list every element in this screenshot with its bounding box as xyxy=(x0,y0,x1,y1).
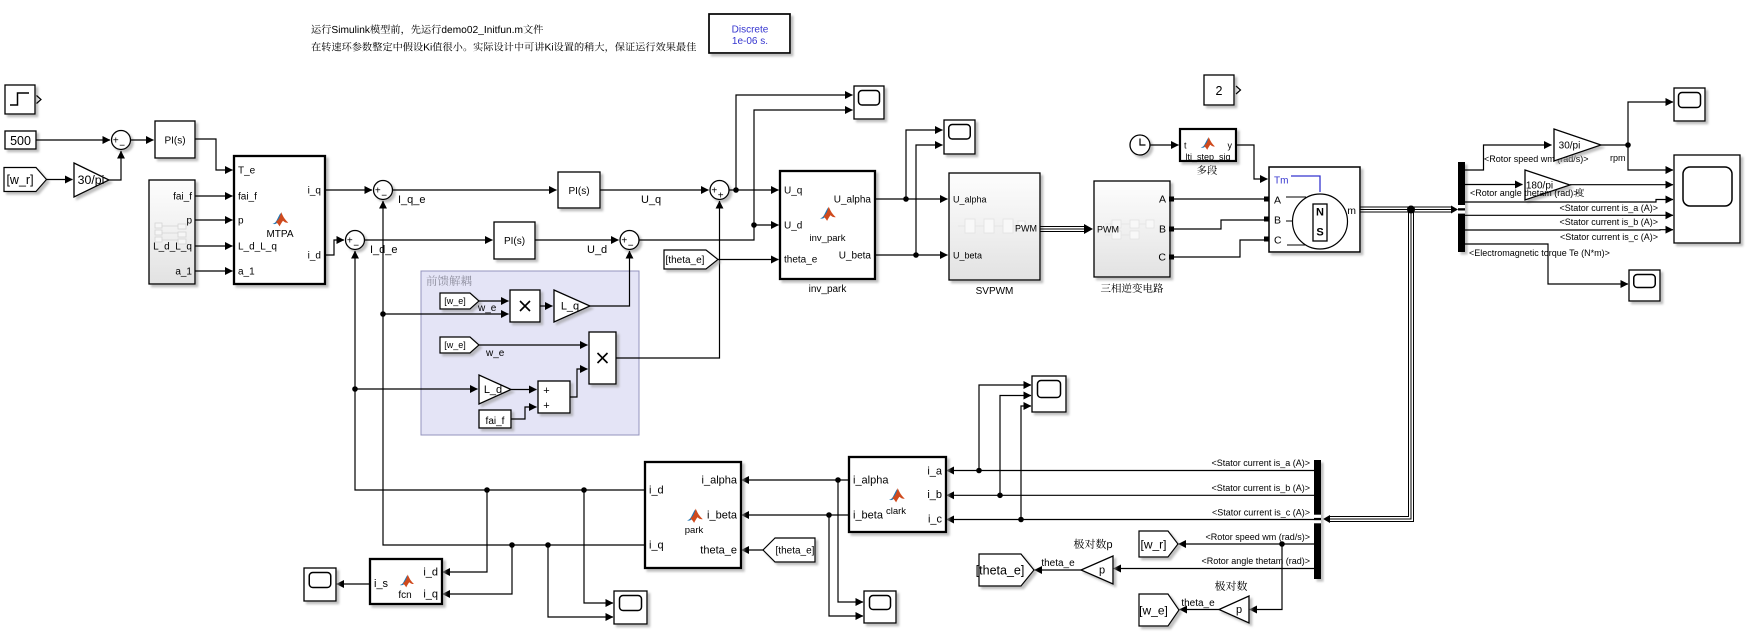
svg-text:inv_park: inv_park xyxy=(809,284,848,295)
wire clark i_alpha to park xyxy=(742,479,850,481)
svg-text:−: − xyxy=(628,241,634,252)
svg-text:1e-06 s.: 1e-06 s. xyxy=(732,36,768,47)
svg-text:T_e: T_e xyxy=(238,166,256,177)
parameter source subsystem xyxy=(149,180,195,284)
PI(s) q-axis controller xyxy=(558,172,600,208)
svg-text:L_d_L_q: L_d_L_q xyxy=(153,242,192,253)
svg-text:rpm: rpm xyxy=(1610,153,1626,163)
wire theta_e to park xyxy=(742,549,764,551)
PI(s) d-axis controller xyxy=(494,222,535,259)
step source block xyxy=(5,85,35,114)
wire is_b up to scope xyxy=(1000,396,1031,496)
measurement bus motor to selector xyxy=(1360,207,1452,212)
svg-text:U_alpha: U_alpha xyxy=(953,195,987,205)
wire i_q tap to product xyxy=(383,313,509,315)
junction dot i_d scope xyxy=(581,487,587,493)
product block upper xyxy=(510,290,540,322)
wire 多段 to motor Tm xyxy=(1236,145,1268,179)
bus junction dot xyxy=(1407,206,1415,214)
svg-text:p: p xyxy=(1099,565,1105,577)
svg-text:lti_step_sig: lti_step_sig xyxy=(1185,152,1230,162)
sum junction i_d error xyxy=(346,231,365,250)
wire torque to scope xyxy=(1465,244,1628,284)
svg-text:<Stator current is_b (A)>: <Stator current is_b (A)> xyxy=(1559,217,1658,227)
wire big product to sum U_q bottom xyxy=(616,201,720,358)
svg-text:+: + xyxy=(375,186,381,197)
wire PId to sum U_d xyxy=(535,239,619,241)
wire stator b to big scope xyxy=(1465,214,1673,216)
svg-text:I_q_e: I_q_e xyxy=(398,194,426,206)
svg-text:N: N xyxy=(1316,207,1324,219)
svg-text:fai_f: fai_f xyxy=(486,416,505,427)
junction dot U_beta xyxy=(913,252,919,258)
wire w_e to big product xyxy=(479,344,588,346)
from tag [w_e] lower xyxy=(440,337,479,353)
label 极对数p xyxy=(1074,539,1112,551)
svg-text:i_q: i_q xyxy=(308,186,321,197)
wire U_d to scope xyxy=(754,110,853,225)
SVPWM subsystem xyxy=(949,173,1040,280)
svg-text:B: B xyxy=(1159,224,1166,236)
svg-text:i_a: i_a xyxy=(927,466,943,478)
svg-text:30/pi: 30/pi xyxy=(78,173,105,187)
pwm bus SVPWM to inverter xyxy=(1040,227,1085,232)
wire park i_d feedback xyxy=(355,251,645,490)
wire PIq to sum U_q xyxy=(600,189,709,191)
wire i_q to scope mid xyxy=(548,545,613,617)
svg-text:a_1: a_1 xyxy=(238,267,255,278)
multi-step MATLAB function block xyxy=(1180,129,1236,161)
svg-text:<Stator current is_c (A)>: <Stator current is_c (A)> xyxy=(1212,508,1310,518)
svg-text:I_d_e: I_d_e xyxy=(370,244,398,256)
from tag [w_e] upper xyxy=(440,293,479,309)
svg-text:i_q: i_q xyxy=(423,589,438,601)
svg-text:theta_e: theta_e xyxy=(700,545,737,557)
from tag [theta_e] park xyxy=(763,538,815,562)
wire i_d to scope mid xyxy=(584,490,613,603)
wire is_a to clark xyxy=(947,470,1315,472)
scope stator currents xyxy=(1032,376,1066,412)
svg-text:Tm: Tm xyxy=(1274,176,1288,187)
junction dot i_q fcn xyxy=(509,542,515,548)
svg-text:SVPWM: SVPWM xyxy=(976,286,1014,297)
junction dot i_d decouple xyxy=(352,386,358,392)
svg-text:i_c: i_c xyxy=(928,514,943,526)
wire is_a up to scope xyxy=(979,385,1031,471)
gain 30/pi rpm xyxy=(1554,129,1601,161)
wire phase A xyxy=(1174,198,1264,200)
svg-text:2: 2 xyxy=(1216,84,1223,98)
svg-text:+: + xyxy=(718,191,724,202)
svg-text:<Electromagnetic torque Te (N*: <Electromagnetic torque Te (N*m)> xyxy=(1469,248,1610,258)
wire sum U_q to inv_park xyxy=(729,189,779,191)
svg-text:p: p xyxy=(1236,604,1242,616)
wire p xyxy=(195,219,233,221)
inv_park MATLAB function block xyxy=(780,171,875,279)
wire U_alpha to SVPWM xyxy=(875,198,948,200)
svg-text:theta_e: theta_e xyxy=(1041,558,1075,569)
wire stator a to big scope xyxy=(1465,200,1673,203)
scope i_d i_q xyxy=(614,591,647,624)
label 多段 xyxy=(1197,165,1217,175)
constant fai_f xyxy=(479,410,511,428)
wire rotor angle to gain xyxy=(1465,184,1523,186)
constant 2 xyxy=(1204,75,1234,105)
wire i_beta to scope xyxy=(829,515,863,616)
wire clock to 多段 xyxy=(1151,144,1179,146)
svg-text:−: − xyxy=(381,191,387,202)
product block lower xyxy=(589,332,616,384)
label 极对数 xyxy=(1215,581,1247,591)
svg-text:+: + xyxy=(113,136,119,147)
wire sum U_d to inv_park xyxy=(639,225,779,240)
svg-text:PI(s): PI(s) xyxy=(164,136,185,147)
wire fcn i_s to scope xyxy=(337,583,371,585)
svg-text:<Stator current is_a (A)>: <Stator current is_a (A)> xyxy=(1559,203,1658,213)
wire gain p to theta_e goto xyxy=(1035,569,1082,571)
junction dot wm xyxy=(1279,541,1285,547)
svg-text:L_d: L_d xyxy=(484,384,502,396)
junction dot i_beta xyxy=(826,512,832,518)
svg-text:PI(s): PI(s) xyxy=(504,236,525,247)
svg-text:i_q: i_q xyxy=(649,540,664,552)
wire rpm to big scope xyxy=(1628,145,1673,170)
svg-text:30/pi: 30/pi xyxy=(1559,140,1581,151)
svg-text:U_alpha: U_alpha xyxy=(834,195,872,206)
svg-text:C: C xyxy=(1158,252,1166,264)
PMSM motor block xyxy=(1269,167,1360,252)
wire gain to junction xyxy=(1601,144,1628,146)
svg-text:U_d: U_d xyxy=(587,244,607,256)
wire i_q to fcn xyxy=(443,545,513,594)
wire gain to sum bottom xyxy=(109,151,121,180)
wire thetam to gain xyxy=(1114,568,1315,570)
svg-text:MTPA: MTPA xyxy=(266,229,293,240)
bus down to bottom selector xyxy=(1330,210,1413,522)
svg-text:clark: clark xyxy=(886,506,906,517)
svg-text:theta_e: theta_e xyxy=(1181,598,1215,609)
svg-text:PWM: PWM xyxy=(1015,224,1037,234)
svg-text:p: p xyxy=(186,216,192,227)
wire stator c to big scope xyxy=(1465,229,1673,231)
svg-text:i_d: i_d xyxy=(423,567,438,579)
svg-text:fcn: fcn xyxy=(398,590,411,601)
svg-text:fai_f: fai_f xyxy=(238,192,257,203)
svg-text:−: − xyxy=(119,141,125,152)
svg-text:B: B xyxy=(1274,215,1281,227)
annotation line 2 xyxy=(311,42,696,53)
wire PI to MTPA T_e xyxy=(195,139,233,170)
svg-text:+: + xyxy=(347,236,353,247)
scope i_s xyxy=(304,568,336,601)
svg-text:<Stator current is_b (A)>: <Stator current is_b (A)> xyxy=(1211,483,1310,493)
gain L_q xyxy=(554,290,590,322)
svg-text:y: y xyxy=(1228,141,1233,151)
constant 500 xyxy=(5,131,36,149)
wire 500 to sum xyxy=(36,139,110,141)
goto tag [w_r] bottom xyxy=(1139,531,1178,557)
area title 前馈解耦 xyxy=(427,275,472,286)
svg-text:<Rotor angle thetam (rad)>: <Rotor angle thetam (rad)> xyxy=(1470,188,1579,198)
scope rpm xyxy=(1674,88,1705,121)
junction dot is_c scope xyxy=(1018,517,1024,523)
svg-text:U_beta: U_beta xyxy=(953,251,982,261)
sum junction speed loop xyxy=(112,131,131,150)
big scope xyxy=(1674,155,1740,243)
wire MTPA i_d to sum xyxy=(325,240,344,255)
wire rpm to scope top xyxy=(1628,102,1673,145)
svg-text:<Stator current is_a (A)>: <Stator current is_a (A)> xyxy=(1211,458,1310,468)
wire i_d to fcn xyxy=(443,490,488,572)
svg-text:[w_e]: [w_e] xyxy=(444,296,466,306)
wire wm to goto xyxy=(1179,543,1315,545)
svg-text:w_e: w_e xyxy=(477,303,497,314)
wire i_d tap to L_d xyxy=(355,388,478,390)
gain 180/pi xyxy=(1525,170,1570,200)
wire park i_q feedback xyxy=(383,201,645,545)
scope U_q U_d xyxy=(854,86,884,119)
wire phase B xyxy=(1174,220,1264,229)
three-phase inverter subsystem xyxy=(1094,181,1170,277)
fcn MATLAB function block xyxy=(370,559,442,604)
PI(s) speed controller xyxy=(155,121,195,158)
svg-text:a_1: a_1 xyxy=(175,267,192,278)
svg-text:i_d: i_d xyxy=(649,485,664,497)
annotation line 1 xyxy=(311,25,543,36)
svg-text:i_alpha: i_alpha xyxy=(702,475,738,487)
feedforward decoupling area xyxy=(421,271,639,435)
svg-text:L_q: L_q xyxy=(561,301,579,313)
svg-text:i_beta: i_beta xyxy=(853,510,884,522)
from tag [theta_e] top xyxy=(664,250,718,269)
goto tag [theta_e] bottom xyxy=(979,554,1034,586)
svg-text:500: 500 xyxy=(10,134,31,148)
svg-text:[w_r]: [w_r] xyxy=(1140,537,1166,551)
svg-text:<Rotor speed wm (rad/s)>: <Rotor speed wm (rad/s)> xyxy=(1484,154,1589,164)
scope U_alpha U_beta xyxy=(944,120,975,154)
wire MTPA i_q to sum xyxy=(325,189,372,191)
svg-text:U_q: U_q xyxy=(784,186,802,197)
svg-text:[theta_e]: [theta_e] xyxy=(976,564,1025,578)
svg-text:PWM: PWM xyxy=(1097,225,1119,235)
svg-text:+: + xyxy=(621,236,627,247)
svg-text:park: park xyxy=(685,525,704,536)
bus selector top xyxy=(1458,162,1465,252)
svg-text:U_q: U_q xyxy=(641,194,661,206)
svg-text:inv_park: inv_park xyxy=(810,233,846,244)
junction dot is_b scope xyxy=(997,493,1003,499)
svg-text:i_b: i_b xyxy=(927,489,942,501)
wire is_b to clark xyxy=(947,494,1315,496)
wire w_r to gain xyxy=(47,179,73,181)
svg-text:−: − xyxy=(353,241,359,252)
svg-text:S: S xyxy=(1316,227,1323,239)
svg-text:A: A xyxy=(1159,194,1166,206)
svg-text:<Rotor speed wm (rad/s)>: <Rotor speed wm (rad/s)> xyxy=(1205,532,1310,542)
svg-text:<Rotor angle thetam (rad)>: <Rotor angle thetam (rad)> xyxy=(1201,556,1310,566)
wire clark i_beta to park xyxy=(742,514,850,516)
junction dot rpm xyxy=(1625,142,1631,148)
wire i_alpha to scope xyxy=(838,480,863,602)
svg-text:i_d: i_d xyxy=(308,251,321,262)
svg-text:[theta_e]: [theta_e] xyxy=(666,255,705,266)
wire is_c to clark xyxy=(947,519,1315,521)
junction dot i_q scope xyxy=(545,542,551,548)
sum junction U_q xyxy=(710,181,729,200)
wire id error to PI xyxy=(365,239,493,241)
wire product to L_q xyxy=(540,305,553,307)
svg-text:i_s: i_s xyxy=(374,578,389,590)
wire wm down to gain p xyxy=(1250,544,1283,610)
svg-text:PI(s): PI(s) xyxy=(568,186,589,197)
wire 180/pi to big scope xyxy=(1570,184,1673,186)
svg-text:w_e: w_e xyxy=(485,348,505,359)
wire fai_f to add xyxy=(511,407,537,419)
junction dot i_alpha xyxy=(835,477,841,483)
wire is_c up to scope xyxy=(1021,406,1031,520)
junction dot i_q decouple xyxy=(380,311,386,317)
svg-text:m: m xyxy=(1347,205,1356,217)
wire a_1 xyxy=(195,270,233,272)
junction dot U_q xyxy=(733,187,739,193)
svg-text:[w_e]: [w_e] xyxy=(1139,603,1168,617)
sum junction i_q error xyxy=(374,181,393,200)
svg-text:A: A xyxy=(1274,195,1281,207)
MTPA MATLAB function block xyxy=(234,156,325,284)
wire phase C xyxy=(1174,240,1264,257)
svg-text:[w_e]: [w_e] xyxy=(444,340,466,350)
clock block xyxy=(1130,135,1150,155)
wire fai_f xyxy=(195,195,233,197)
svg-text:p: p xyxy=(238,216,244,227)
svg-text:<Stator current is_c (A)>: <Stator current is_c (A)> xyxy=(1560,232,1658,242)
gain p lower 极对数 xyxy=(1219,596,1249,623)
junction dot U_alpha xyxy=(903,196,909,202)
bus selector bottom xyxy=(1314,460,1321,579)
add block xyxy=(538,381,570,413)
wire U_beta to scope xyxy=(916,145,943,255)
wire theta_e to inv_park xyxy=(718,259,779,261)
wire rotor speed to gain xyxy=(1465,145,1552,170)
scope torque xyxy=(1629,270,1660,301)
svg-text:fai_f: fai_f xyxy=(173,192,192,203)
junction dot i_d fcn xyxy=(484,487,490,493)
wire L_d to add xyxy=(511,389,537,391)
junction dot is_a scope xyxy=(976,468,982,474)
label 三相逆变电路 xyxy=(1101,283,1163,293)
svg-text:C: C xyxy=(1274,235,1282,247)
junction dot U_d xyxy=(751,222,757,228)
svg-text:[theta_e]: [theta_e] xyxy=(776,546,815,557)
svg-text:U_beta: U_beta xyxy=(839,251,872,262)
wire U_beta to SVPWM xyxy=(875,254,948,256)
wire iq error to PI xyxy=(393,189,557,191)
wire L_d_L_q xyxy=(195,245,233,247)
gain L_d xyxy=(479,375,511,404)
Discrete sample-time block xyxy=(709,14,790,53)
wire U_q to scope xyxy=(736,95,853,190)
wire gain p to w_e goto xyxy=(1180,609,1220,611)
sum junction U_d xyxy=(620,231,639,250)
svg-text:+: + xyxy=(711,186,717,197)
goto tag [w_r] source xyxy=(4,168,47,192)
wire sum to PI xyxy=(131,139,154,141)
gain p upper 极对数p xyxy=(1081,556,1113,584)
svg-text:L_d_L_q: L_d_L_q xyxy=(238,242,277,253)
svg-text:U_d: U_d xyxy=(784,221,802,232)
clark MATLAB function block xyxy=(849,457,946,532)
svg-text:i_alpha: i_alpha xyxy=(853,475,889,487)
svg-text:Discrete: Discrete xyxy=(732,25,769,36)
wire U_alpha to scope xyxy=(906,130,943,199)
goto tag [w_e] bottom xyxy=(1139,594,1179,626)
svg-text:[w_r]: [w_r] xyxy=(6,173,33,187)
park MATLAB function block xyxy=(645,462,741,568)
wire w_e to product xyxy=(479,300,509,302)
wire add to big product xyxy=(570,369,588,397)
wire L_q to sum U_d bottom xyxy=(590,251,630,306)
svg-text:i_beta: i_beta xyxy=(707,510,738,522)
svg-text:theta_e: theta_e xyxy=(784,255,818,266)
svg-text:+: + xyxy=(543,385,549,397)
scope i_alpha i_beta xyxy=(864,591,896,623)
svg-text:+: + xyxy=(543,400,549,412)
gain 30/pi speed xyxy=(74,163,109,197)
